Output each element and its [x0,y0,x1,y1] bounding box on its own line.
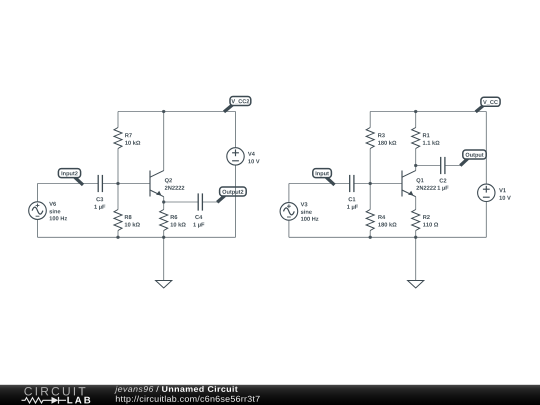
voltage source V3 (sine) [280,184,318,238]
resistor R4 [366,184,396,238]
node base bias junction [116,182,119,185]
node R2 to ground [414,236,417,239]
ground (left circuit) [156,237,172,288]
net flag V_CC2 [224,97,251,112]
CircuitLab logo wordmark [24,387,85,396]
transistor Q2 [150,112,184,203]
wire input/base net [38,183,151,185]
node emitter junction [162,200,165,203]
CircuitLab logo LAB text [67,397,90,404]
transistor Q1 [402,166,436,210]
wire collector to output [416,165,461,167]
net flag Input [313,169,335,185]
node R1 tap on V_CC rail [414,110,417,113]
voltage source V4 (10 V) [227,112,260,238]
resistor R7 [114,112,140,184]
resistor R1 [412,112,440,166]
resistor R8 [114,184,140,238]
node R4 to ground [369,236,372,239]
capacitor C4 [193,193,204,227]
node collector junction [414,164,417,167]
wire ground rail (right circuit) [289,236,486,238]
resistor R2 [412,210,438,238]
node R8 to ground [116,236,119,239]
capacitor C1 [347,175,358,210]
wire top rail (right circuit) [370,111,486,113]
wire emitter to output [164,201,220,203]
resistor R3 [366,112,396,184]
wire ground rail (left circuit) [38,236,236,238]
wire input/base net (right) [289,183,402,185]
node collector tap on V_CC2 rail [162,110,165,113]
node R6 to ground [162,236,165,239]
voltage source V6 (sine) [29,184,67,238]
voltage source V1 (10 V) [478,112,511,238]
wire top rail (left circuit) [118,111,236,113]
net flag Input2 [58,169,83,185]
footer url text [116,396,260,404]
capacitor C2 [438,157,449,191]
capacitor C3 [94,175,105,210]
net flag V_CC [476,97,500,112]
net flag Output2 [217,187,246,202]
resistor R6 [160,202,186,237]
footer title text [114,386,237,394]
net flag Output [460,150,486,166]
footer bar [0,385,540,405]
ground (right circuit) [408,237,424,288]
CircuitLab logo waveform glyph [22,397,67,404]
node base bias junction (right) [369,182,372,185]
